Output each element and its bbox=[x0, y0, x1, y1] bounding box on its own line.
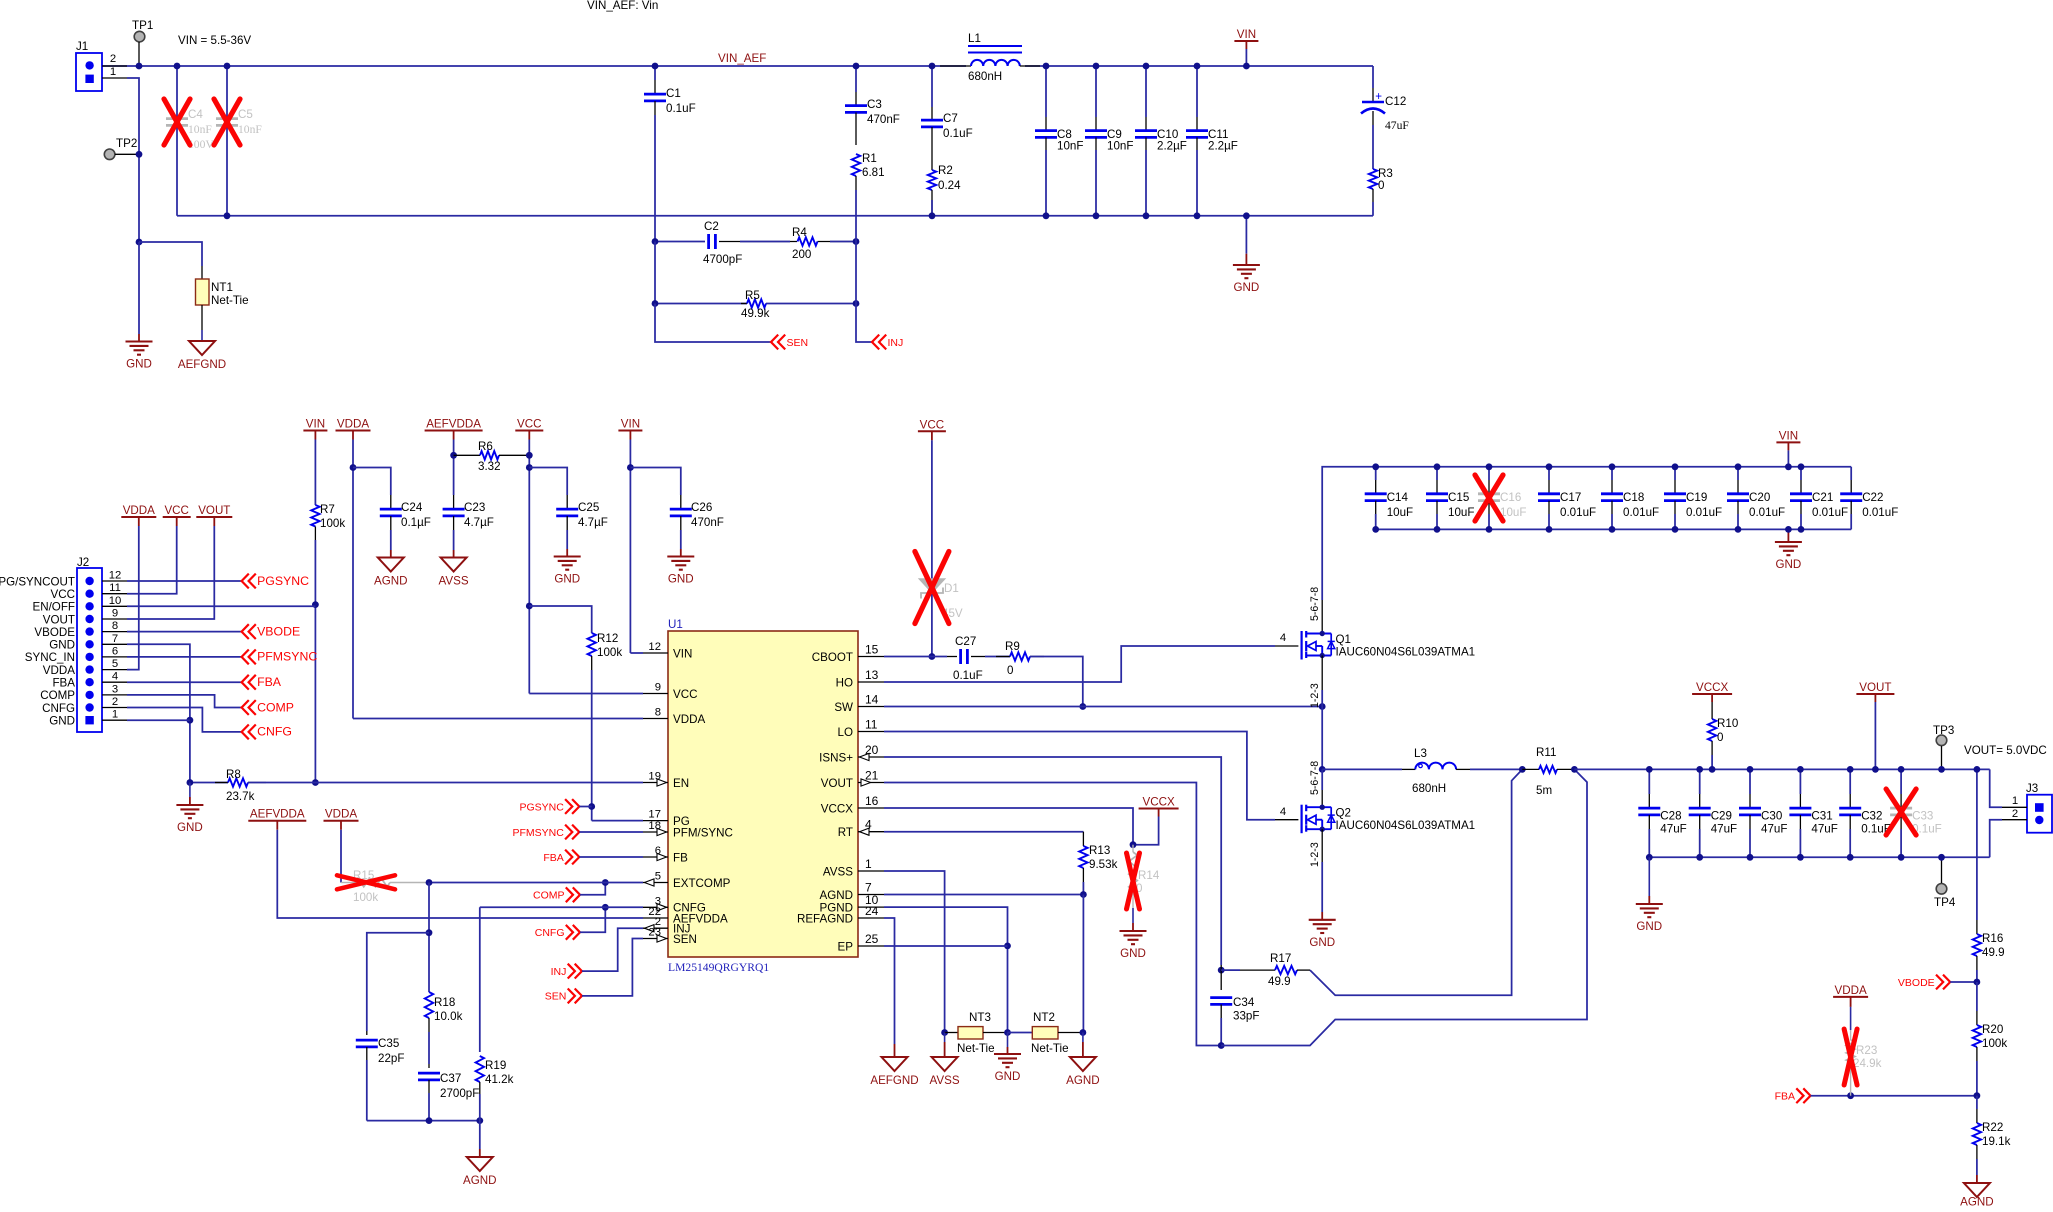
pin 20 of U1 (ISNS+) bbox=[858, 756, 884, 758]
test point TP4 bbox=[1936, 884, 1947, 895]
junction R7-ENOFF bbox=[312, 601, 319, 608]
capacitor C12 polarized bbox=[1372, 66, 1374, 88]
svg-text:0.01uF: 0.01uF bbox=[1686, 506, 1722, 519]
wire SW line bbox=[884, 706, 1322, 708]
svg-text:C3: C3 bbox=[867, 98, 882, 111]
junction NT3-GND bbox=[1004, 1029, 1011, 1036]
wire VCC to CBOOT bbox=[931, 440, 933, 656]
svg-text:47uF: 47uF bbox=[1660, 823, 1686, 836]
transistor Q2 bbox=[1321, 769, 1323, 790]
svg-text:2.2µF: 2.2µF bbox=[1208, 140, 1238, 153]
svg-text:13: 13 bbox=[865, 668, 879, 682]
svg-text:VDDA: VDDA bbox=[123, 504, 155, 517]
port VBODE out bbox=[1943, 975, 1950, 990]
svg-text:R4: R4 bbox=[792, 226, 807, 239]
junction C20 top bbox=[1735, 463, 1742, 470]
wire HO to Q1 gate bbox=[884, 646, 1275, 682]
port FBA J2 bbox=[242, 675, 249, 690]
svg-text:VIN: VIN bbox=[621, 418, 640, 431]
svg-text:COMP: COMP bbox=[257, 700, 294, 714]
capacitor C15 bbox=[1436, 467, 1438, 480]
wire L3 to R11 bbox=[1470, 768, 1522, 770]
wire PGND pin line bbox=[884, 907, 1008, 1032]
junction VIN2-C26 bbox=[627, 464, 634, 471]
svg-text:J2: J2 bbox=[77, 556, 89, 569]
capacitor C20 bbox=[1737, 467, 1739, 480]
junction C20 bottom bbox=[1735, 526, 1742, 533]
pin 15 of U1 (CBOOT) bbox=[858, 656, 884, 658]
svg-text:R12: R12 bbox=[597, 632, 618, 645]
pin 14 of U1 (SW) bbox=[858, 706, 884, 708]
junction C21 bottom bbox=[1798, 526, 1805, 533]
svg-text:1: 1 bbox=[2012, 795, 2018, 807]
wire VDDA to J2 pin5 bbox=[127, 526, 139, 670]
svg-text:47uF: 47uF bbox=[1385, 119, 1409, 132]
svg-text:VIN: VIN bbox=[306, 418, 325, 431]
svg-text:49.9k: 49.9k bbox=[741, 307, 770, 320]
junction GND drop bbox=[1243, 212, 1250, 219]
svg-text:IAUC60N04S6L039ATMA1: IAUC60N04S6L039ATMA1 bbox=[1336, 646, 1476, 659]
svg-text:CNFG: CNFG bbox=[257, 725, 292, 739]
capacitor C22 bbox=[1850, 467, 1852, 480]
wire J3 pin2 to GND rail bbox=[1990, 820, 2002, 858]
junction C31 top bbox=[1797, 766, 1804, 773]
svg-text:C25: C25 bbox=[578, 501, 599, 514]
wire pin1 GND bbox=[127, 719, 190, 721]
junction PGSYNC bbox=[588, 803, 595, 810]
port INJ U1 bbox=[575, 964, 582, 979]
svg-text:GND: GND bbox=[1120, 947, 1146, 960]
pin 16 of U1 (VCCX) bbox=[858, 807, 884, 809]
svg-text:C26: C26 bbox=[691, 501, 712, 514]
svg-text:100k: 100k bbox=[353, 891, 378, 904]
wire NT1 to AEFGND bbox=[201, 330, 203, 341]
capacitor C25 bbox=[566, 495, 568, 509]
svg-text:EN/OFF: EN/OFF bbox=[32, 601, 75, 614]
junction R15-R18 bbox=[426, 879, 433, 886]
svg-text:0: 0 bbox=[1007, 664, 1013, 677]
pin 9 of J2 (VOUT) bbox=[85, 615, 93, 623]
svg-text:J3: J3 bbox=[2026, 782, 2038, 795]
wire VOUT sense to R11 right (kelvin) bbox=[1221, 769, 1587, 1045]
wire R8 to U1 EN bbox=[248, 782, 643, 784]
svg-text:1-2-3: 1-2-3 bbox=[1309, 842, 1321, 867]
svg-text:D1: D1 bbox=[944, 582, 959, 595]
svg-text:VIN_AEF: Vin: VIN_AEF: Vin bbox=[587, 0, 658, 12]
svg-text:C20: C20 bbox=[1749, 491, 1770, 504]
svg-text:VOUT: VOUT bbox=[43, 613, 75, 626]
junction TP2 wire bbox=[136, 151, 143, 158]
wire VOUT to R16 bbox=[1976, 769, 1978, 920]
svg-text:10uF: 10uF bbox=[1387, 506, 1413, 519]
wire pin8 to VBODE port bbox=[127, 631, 242, 633]
svg-text:0.24: 0.24 bbox=[938, 179, 961, 192]
wire R18 chain vertical bbox=[428, 883, 430, 993]
svg-text:AGND: AGND bbox=[820, 889, 854, 902]
wire AVSS pin line bbox=[884, 871, 945, 1033]
pin 22 of U1 (AEFVDDA) bbox=[643, 917, 668, 919]
junction R7-EN bbox=[312, 779, 319, 786]
wire REFAGND pin line bbox=[884, 918, 895, 1044]
resistor R15 (DNP) bbox=[341, 882, 355, 884]
junction C11 bottom bbox=[1194, 212, 1201, 219]
pin 21 of U1 (VOUT) bbox=[858, 782, 884, 784]
pin 4 of U1 (RT) bbox=[858, 831, 884, 833]
svg-text:100k: 100k bbox=[1982, 1037, 2007, 1050]
junction C29 bottom bbox=[1696, 854, 1703, 861]
svg-text:C27: C27 bbox=[955, 635, 976, 648]
svg-text:1: 1 bbox=[865, 857, 872, 871]
svg-text:GND: GND bbox=[126, 358, 152, 371]
junction GND split bbox=[136, 239, 143, 246]
port VBODE J2 bbox=[242, 624, 249, 639]
junction FBA-R23 bbox=[1847, 1092, 1854, 1099]
svg-text:C17: C17 bbox=[1560, 491, 1581, 504]
svg-text:Q2: Q2 bbox=[1336, 807, 1351, 820]
port COMP J2 bbox=[242, 700, 249, 715]
svg-text:2700pF: 2700pF bbox=[440, 1087, 479, 1100]
svg-text:AEFGND: AEFGND bbox=[870, 1074, 918, 1087]
svg-text:4.7µF: 4.7µF bbox=[464, 516, 494, 529]
svg-text:GND: GND bbox=[1776, 558, 1802, 571]
svg-text:12: 12 bbox=[648, 641, 661, 653]
port PGSYNC U1 bbox=[572, 799, 579, 814]
pin 5 of U1 (EXTCOMP) bbox=[643, 882, 668, 884]
svg-text:49.9: 49.9 bbox=[1982, 946, 2005, 959]
svg-text:R13: R13 bbox=[1089, 844, 1110, 857]
ground AGND comp bbox=[479, 1149, 481, 1157]
junction C34 bottom bbox=[1218, 1042, 1225, 1049]
svg-text:FBA: FBA bbox=[1775, 1091, 1795, 1103]
resistor R5 bbox=[747, 299, 766, 307]
ground GND C28 bbox=[1648, 857, 1650, 896]
svg-text:VCC: VCC bbox=[51, 588, 75, 601]
svg-text:CNFG: CNFG bbox=[42, 702, 75, 715]
svg-text:VIN: VIN bbox=[1237, 28, 1256, 41]
junction VIN rail bbox=[1243, 63, 1250, 70]
svg-text:R6: R6 bbox=[478, 440, 493, 453]
port PFMSYNC J2 bbox=[242, 650, 249, 665]
svg-text:LM25149QRGYRQ1: LM25149QRGYRQ1 bbox=[668, 961, 769, 974]
svg-text:0: 0 bbox=[1717, 731, 1723, 744]
svg-text:33pF: 33pF bbox=[1233, 1010, 1259, 1023]
svg-text:R14: R14 bbox=[1138, 869, 1160, 882]
junction C19 bottom bbox=[1672, 526, 1679, 533]
wire AEFVDDA to U1 pin22 bbox=[277, 830, 643, 918]
net-tie NT2 bbox=[1008, 1032, 1033, 1034]
wire VCC vertical bbox=[528, 440, 530, 694]
svg-text:Net-Tie: Net-Tie bbox=[957, 1042, 995, 1055]
no-fit X over C33 bbox=[1886, 789, 1916, 835]
svg-text:680nH: 680nH bbox=[968, 70, 1002, 83]
junction C37 bottom bbox=[426, 1117, 433, 1124]
capacitor C19 bbox=[1674, 467, 1676, 480]
svg-text:AGND: AGND bbox=[1960, 1196, 1994, 1208]
pin 10 of J2 (EN/OFF) bbox=[85, 602, 93, 610]
svg-text:3: 3 bbox=[112, 683, 118, 695]
junction R9-SW bbox=[1079, 703, 1086, 710]
svg-text:4: 4 bbox=[1280, 632, 1286, 644]
junction FBA-R22 bbox=[1974, 1092, 1981, 1099]
capacitor C9 bbox=[1095, 66, 1097, 117]
ground GND C26 bbox=[680, 549, 682, 557]
wire pin6 to PFMSYNC port bbox=[127, 656, 242, 658]
svg-text:EXTCOMP: EXTCOMP bbox=[673, 877, 731, 890]
svg-text:AVSS: AVSS bbox=[439, 575, 469, 588]
svg-text:C28: C28 bbox=[1660, 810, 1681, 823]
svg-text:14: 14 bbox=[865, 693, 879, 707]
svg-text:C14: C14 bbox=[1387, 491, 1409, 504]
resistor R14 (DNP) bbox=[1132, 845, 1134, 852]
junction NT2-AGND bbox=[1080, 1029, 1087, 1036]
svg-text:TP3: TP3 bbox=[1933, 724, 1954, 737]
resistor R4 bbox=[798, 237, 818, 245]
svg-text:0.01uF: 0.01uF bbox=[1623, 506, 1659, 519]
svg-text:C5: C5 bbox=[238, 108, 253, 121]
wire EXTCOMP line bbox=[429, 882, 643, 884]
resistor R1 bbox=[852, 154, 860, 176]
junction pin1-pin7 bbox=[187, 717, 194, 724]
capacitor C7 bbox=[931, 66, 933, 107]
ground AVSS C23 bbox=[453, 550, 455, 558]
svg-text:R9: R9 bbox=[1005, 640, 1020, 653]
svg-text:C31: C31 bbox=[1811, 810, 1832, 823]
svg-text:C15: C15 bbox=[1448, 491, 1469, 504]
pin 19 of U1 (EN) bbox=[643, 782, 668, 784]
junction C32 bottom bbox=[1847, 854, 1854, 861]
test point TP3 bbox=[1936, 735, 1947, 746]
svg-text:10nF: 10nF bbox=[1057, 140, 1083, 153]
svg-text:IAUC60N04S6L039ATMA1: IAUC60N04S6L039ATMA1 bbox=[1336, 819, 1476, 832]
junction C3 top bbox=[853, 63, 860, 70]
svg-text:22pF: 22pF bbox=[378, 1052, 404, 1065]
svg-text:2: 2 bbox=[110, 53, 116, 65]
capacitor C21 bbox=[1800, 467, 1802, 480]
svg-text:C35: C35 bbox=[378, 1037, 399, 1050]
svg-text:5: 5 bbox=[112, 658, 118, 670]
pin 6 of J2 (SYNC_IN) bbox=[85, 653, 93, 661]
pin 9 of U1 (VCC) bbox=[643, 693, 668, 695]
junction C18 top bbox=[1609, 463, 1616, 470]
wire CBOOT to C27 bbox=[884, 656, 947, 658]
junction GND bank bbox=[1785, 526, 1792, 533]
svg-text:AGND: AGND bbox=[1066, 1074, 1100, 1087]
svg-text:PGSYNC: PGSYNC bbox=[257, 574, 309, 588]
svg-text:VDDA: VDDA bbox=[43, 664, 75, 677]
svg-text:VOUT: VOUT bbox=[1859, 681, 1891, 694]
svg-text:1: 1 bbox=[110, 66, 116, 78]
svg-text:VCC: VCC bbox=[920, 418, 944, 431]
capacitor C33 (DNP) bbox=[1900, 769, 1902, 794]
pin 4 of J2 (FBA) bbox=[85, 678, 93, 686]
svg-text:25: 25 bbox=[865, 932, 879, 946]
svg-text:0.01uF: 0.01uF bbox=[1812, 506, 1848, 519]
svg-text:VDDA: VDDA bbox=[337, 418, 369, 431]
junction C28 bottom bbox=[1646, 854, 1653, 861]
junction C15 bottom bbox=[1434, 526, 1441, 533]
pin 3 of U1 (CNFG) bbox=[643, 906, 668, 908]
ground GND NT3 bbox=[1007, 1033, 1009, 1048]
pin 3 of J2 (COMP) bbox=[85, 691, 93, 699]
wire RT to R13 bbox=[884, 831, 1083, 833]
svg-text:AEFVDDA: AEFVDDA bbox=[250, 808, 305, 821]
capacitor C5 (DNP) bbox=[226, 66, 228, 216]
wire Q2 source to GND bbox=[1321, 829, 1323, 862]
wire VCC to J2 pin11 bbox=[127, 526, 177, 594]
wire R7 to EN rail bbox=[314, 605, 316, 783]
pin 23 of U1 (SEN) bbox=[643, 938, 668, 940]
ground AVSS bbox=[944, 1033, 946, 1043]
wire VDDA to U1 pin8 bbox=[353, 718, 643, 720]
junction C29 top bbox=[1696, 766, 1703, 773]
resistor R12 bbox=[588, 633, 596, 656]
svg-text:HO: HO bbox=[836, 676, 853, 689]
capacitor C37 bbox=[428, 1064, 430, 1068]
port SEN U1 bbox=[575, 989, 582, 1004]
svg-text:VBODE: VBODE bbox=[1898, 977, 1935, 989]
junction C7 top bbox=[929, 63, 936, 70]
svg-text:VCCX: VCCX bbox=[821, 802, 853, 815]
ground AGND C24 bbox=[390, 550, 392, 558]
svg-text:C19: C19 bbox=[1686, 491, 1707, 504]
wire VOUT to J3 pin1 bbox=[1990, 769, 2002, 807]
capacitor C34 bbox=[1220, 965, 1222, 990]
wire VCC to R12 bbox=[529, 606, 591, 633]
svg-text:GND: GND bbox=[1234, 281, 1260, 294]
resistor R3 bbox=[1369, 169, 1377, 189]
IC U1 LM25149QRGYRQ1 bbox=[668, 631, 858, 957]
svg-text:R18: R18 bbox=[434, 996, 455, 1009]
svg-text:49.9: 49.9 bbox=[1268, 975, 1291, 988]
capacitor C35 bbox=[366, 1031, 368, 1035]
svg-text:R16: R16 bbox=[1982, 932, 2003, 945]
no-fit X over R23 bbox=[1844, 1029, 1857, 1085]
junction SW-Q1 bbox=[1319, 703, 1326, 710]
svg-text:10nF: 10nF bbox=[1107, 140, 1133, 153]
svg-text:470nF: 470nF bbox=[867, 113, 900, 126]
svg-text:680nH: 680nH bbox=[1412, 782, 1446, 795]
ground GND bank bbox=[1787, 529, 1789, 542]
pin 7 of U1 (AGND) bbox=[858, 894, 884, 896]
svg-text:10uF: 10uF bbox=[1500, 506, 1526, 519]
junction C4 top bbox=[174, 63, 181, 70]
svg-text:C33: C33 bbox=[1912, 810, 1933, 823]
capacitor C11 bbox=[1196, 66, 1198, 117]
svg-text:AGND: AGND bbox=[374, 575, 408, 588]
ground GND Q2 bbox=[1321, 912, 1323, 920]
ground GND C25 bbox=[566, 549, 568, 557]
wire CNFG to R19 bbox=[479, 907, 481, 1052]
svg-text:ISNS+: ISNS+ bbox=[819, 751, 853, 764]
svg-text:9: 9 bbox=[655, 682, 661, 694]
svg-text:LO: LO bbox=[838, 726, 853, 739]
no-fit X over D1 bbox=[915, 552, 949, 624]
pin 12 of J2 (PG/SYNCOUT) bbox=[85, 577, 93, 585]
svg-text:5-6-7-8: 5-6-7-8 bbox=[1309, 761, 1321, 795]
junction SW-L3 bbox=[1319, 766, 1326, 773]
svg-text:10: 10 bbox=[109, 595, 122, 607]
svg-text:TP1: TP1 bbox=[132, 19, 153, 32]
wire VIN bank bottom rail bbox=[1376, 528, 1852, 530]
junction CBOOT-VCC bbox=[929, 653, 936, 660]
svg-text:0.01uF: 0.01uF bbox=[1862, 506, 1898, 519]
svg-text:VOUT: VOUT bbox=[198, 504, 230, 517]
svg-text:5-6-7-8: 5-6-7-8 bbox=[1309, 587, 1321, 621]
svg-text:FBA: FBA bbox=[52, 677, 75, 690]
svg-text:PFM/SYNC: PFM/SYNC bbox=[673, 826, 733, 839]
junction R4 right bbox=[853, 238, 860, 245]
svg-text:VIN_AEF: VIN_AEF bbox=[718, 52, 766, 65]
capacitor C24 bbox=[353, 468, 391, 496]
wire C35 branch bbox=[367, 933, 429, 1031]
wire VCCX label to R14 bbox=[1133, 817, 1159, 845]
resistor R13 bbox=[1082, 832, 1084, 846]
wire VCC to U1 pin9 bbox=[529, 693, 643, 695]
wire TP2 stub bbox=[115, 153, 139, 155]
junction VCC-R12 bbox=[526, 603, 533, 610]
svg-text:15: 15 bbox=[865, 643, 879, 657]
wire VOUT rail bbox=[1574, 768, 1989, 770]
svg-text:8: 8 bbox=[112, 620, 118, 632]
svg-text:TP4: TP4 bbox=[1934, 896, 1956, 909]
junction C32 top bbox=[1847, 766, 1854, 773]
wire AGND pin line bbox=[884, 894, 1083, 896]
capacitor C26 bbox=[630, 468, 680, 496]
svg-text:R7: R7 bbox=[320, 503, 335, 516]
svg-text:NT3: NT3 bbox=[969, 1011, 991, 1024]
junction C33 bottom bbox=[1898, 854, 1905, 861]
wire pin12 to PGSYNC port bbox=[127, 580, 242, 582]
svg-text:21: 21 bbox=[865, 769, 879, 783]
port PGSYNC J2 bbox=[242, 574, 249, 589]
svg-text:C29: C29 bbox=[1711, 810, 1732, 823]
pin 2 of J1 bbox=[102, 65, 127, 67]
svg-text:GND: GND bbox=[554, 573, 580, 586]
svg-text:NT2: NT2 bbox=[1033, 1011, 1055, 1024]
svg-text:7: 7 bbox=[112, 633, 118, 645]
no-fit X over C16 bbox=[1475, 475, 1503, 521]
port FBA out bbox=[1803, 1088, 1810, 1103]
wire AEFVDDA vertical bbox=[453, 440, 455, 496]
port COMP U1 bbox=[573, 887, 580, 902]
wire to AGND symbol bbox=[479, 1121, 481, 1149]
svg-text:INJ: INJ bbox=[551, 966, 567, 978]
resistor R19 bbox=[476, 1056, 484, 1082]
svg-text:2: 2 bbox=[112, 696, 118, 708]
junction C16 bottom bbox=[1486, 526, 1493, 533]
svg-text:C16: C16 bbox=[1500, 491, 1521, 504]
wire ISNS+ line bbox=[884, 757, 1221, 965]
ground AGND NT2 bbox=[1082, 1033, 1084, 1043]
wire VDDA vertical bbox=[352, 440, 354, 719]
svg-text:AEFGND: AEFGND bbox=[178, 358, 226, 371]
wire VCCX pin line bbox=[884, 808, 1133, 845]
svg-text:SEN: SEN bbox=[545, 991, 567, 1003]
svg-text:SYNC_IN: SYNC_IN bbox=[25, 651, 75, 664]
inductor L1 bbox=[940, 65, 971, 67]
junction C1-C2 row bbox=[652, 238, 659, 245]
pin 5 of J2 (VDDA) bbox=[85, 665, 93, 673]
svg-text:VDDA: VDDA bbox=[325, 808, 357, 821]
junction C17 bottom bbox=[1546, 526, 1553, 533]
svg-text:4: 4 bbox=[1280, 806, 1286, 818]
port CNFG J2 bbox=[242, 725, 249, 740]
net-tie NT1 bbox=[201, 266, 203, 279]
capacitor C18 bbox=[1611, 467, 1613, 480]
junction C14 bottom-left bbox=[1372, 526, 1379, 533]
svg-text:11: 11 bbox=[865, 718, 878, 732]
svg-text:VDDA: VDDA bbox=[1834, 984, 1866, 997]
